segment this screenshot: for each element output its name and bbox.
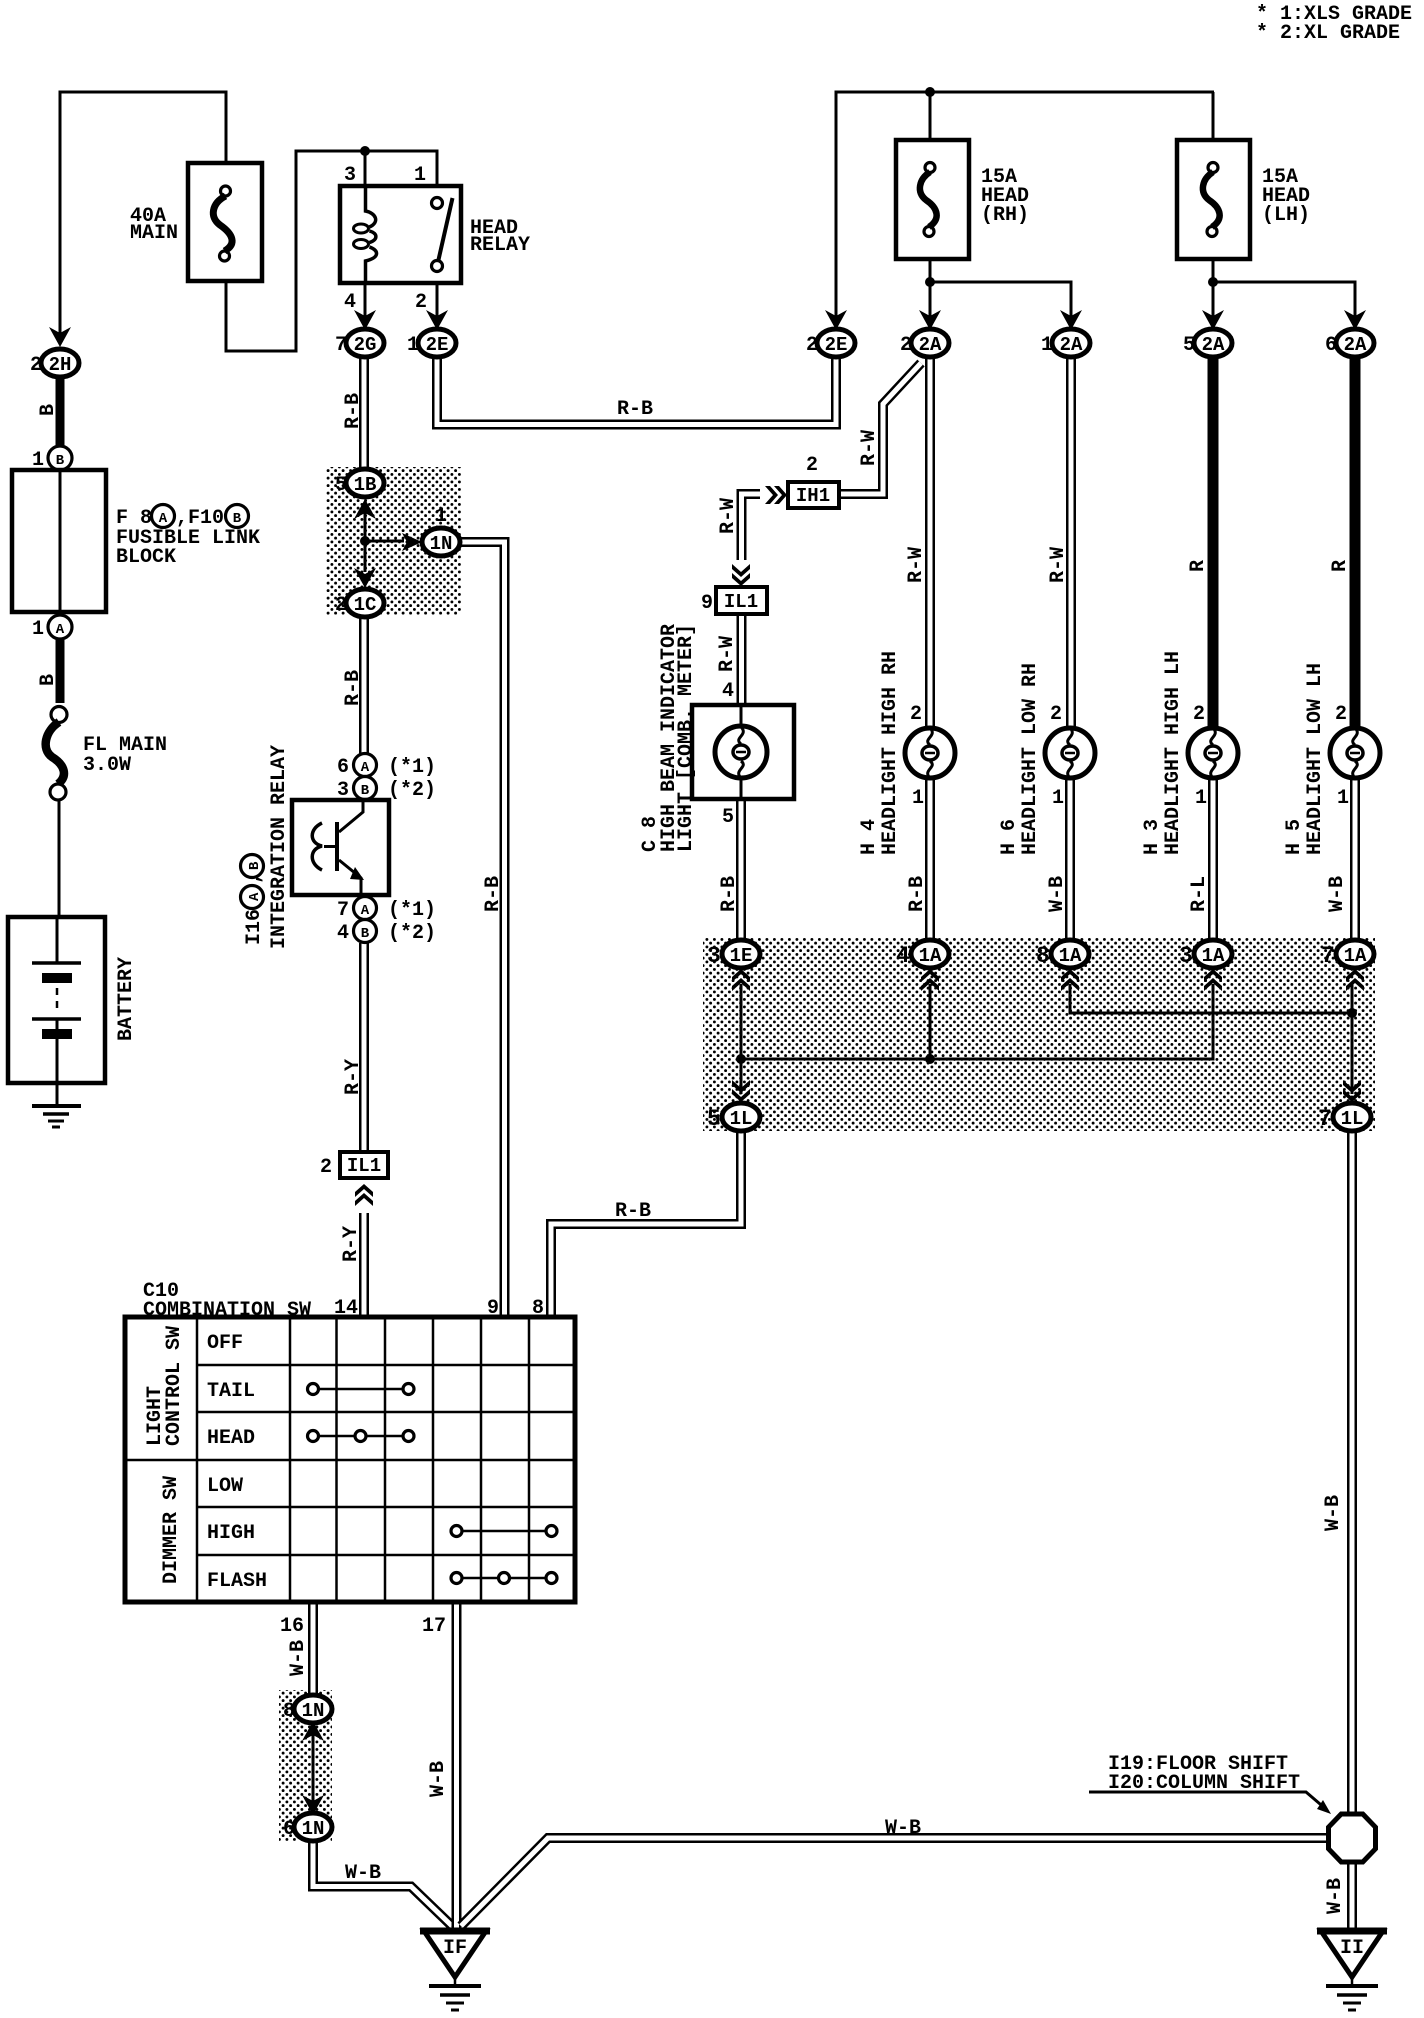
svg-text:3: 3: [707, 943, 721, 969]
svg-text:4: 4: [722, 680, 734, 703]
svg-text:4: 4: [344, 291, 356, 314]
svg-text:IF: IF: [443, 1937, 467, 1960]
wire R 6(2A) to headlight low LH: [1350, 357, 1361, 733]
svg-text:HEADLIGHT LOW LH: HEADLIGHT LOW LH: [1304, 663, 1327, 855]
svg-text:R-B: R-B: [906, 876, 929, 912]
svg-text:BLOCK: BLOCK: [116, 546, 176, 569]
connector 2(1C): [335, 589, 384, 617]
svg-text:R-Y: R-Y: [340, 1226, 363, 1262]
pin 4 B (*2): [337, 920, 436, 946]
svg-text:1: 1: [1052, 787, 1064, 810]
svg-text:LOW: LOW: [207, 1475, 243, 1498]
svg-text:(*2): (*2): [388, 922, 436, 945]
pin B circle: [32, 446, 72, 472]
svg-text:2H: 2H: [49, 354, 72, 376]
svg-text:(*2): (*2): [388, 779, 436, 802]
wire R-W 2(2A) to headlight high RH: [925, 357, 935, 731]
svg-text:2A: 2A: [1060, 334, 1083, 356]
svg-text:2: 2: [1193, 703, 1205, 726]
svg-text:HIGH: HIGH: [207, 1522, 255, 1545]
svg-text:II: II: [1340, 1937, 1364, 1960]
svg-text:B: B: [361, 783, 370, 799]
connector 2(2A): [900, 329, 949, 357]
svg-text:R-B: R-B: [482, 876, 505, 912]
svg-text:5: 5: [722, 806, 734, 829]
svg-text:HEADLIGHT LOW RH: HEADLIGHT LOW RH: [1019, 663, 1042, 855]
ground II: [1317, 1931, 1387, 2010]
node junction 1E bus: [736, 1054, 746, 1064]
lamp headlight high LH H3: [1188, 703, 1238, 810]
svg-text:I16: I16: [243, 909, 266, 945]
wire R-B 1C to integration relay pin A: [359, 616, 369, 756]
wire 1B to 1C link: [364, 513, 367, 572]
connector 3(1A): [1179, 940, 1232, 969]
svg-text:(RH): (RH): [981, 204, 1029, 227]
wire W-B headlight low LH to 7(1A): [1350, 777, 1360, 942]
svg-text:H 5: H 5: [1283, 819, 1306, 855]
svg-text:4: 4: [337, 922, 349, 945]
svg-text:5: 5: [1183, 334, 1195, 357]
svg-text:IL1: IL1: [347, 1155, 381, 1177]
svg-text:1B: 1B: [354, 474, 377, 496]
arrow into 6(1N): [302, 1795, 324, 1815]
svg-text:W-B: W-B: [1324, 1878, 1347, 1914]
svg-text:HEADLIGHT HIGH LH: HEADLIGHT HIGH LH: [1162, 651, 1185, 855]
arrow into 1B: [354, 499, 376, 519]
label lamp H4: [858, 651, 902, 855]
wire battery feed to 2H and 40A MAIN: [60, 92, 226, 341]
svg-text:1N: 1N: [302, 1818, 325, 1840]
svg-text:W-B: W-B: [345, 1862, 381, 1885]
svg-text:5: 5: [335, 474, 347, 497]
arrow into 1N: [402, 533, 422, 551]
svg-text:H 3: H 3: [1141, 819, 1164, 855]
svg-text:W-B: W-B: [287, 1640, 310, 1676]
svg-text:INTEGRATION RELAY: INTEGRATION RELAY: [268, 745, 291, 949]
svg-text:H 4: H 4: [858, 819, 881, 855]
connector IH1 pin 2: [788, 454, 839, 508]
svg-text:1: 1: [1195, 787, 1207, 810]
integration relay I16: [241, 745, 390, 949]
fusible link block F8/F10: [12, 470, 260, 612]
svg-text:(LH): (LH): [1262, 204, 1310, 227]
svg-text:HEADLIGHT HIGH RH: HEADLIGHT HIGH RH: [879, 651, 902, 855]
svg-text:2: 2: [1335, 703, 1347, 726]
note grade legend: [1256, 3, 1412, 45]
connector 2H: [30, 349, 79, 377]
svg-text:1: 1: [407, 334, 419, 357]
svg-text:TAIL: TAIL: [207, 1380, 255, 1403]
wire R-W IL1 to high beam indicator: [737, 614, 747, 707]
chevron arrow into IH1: [765, 486, 787, 504]
svg-text:1: 1: [435, 505, 447, 528]
node junction at relay feed: [360, 146, 370, 156]
svg-text:2E: 2E: [426, 334, 449, 356]
wire ground link 3(1E) to 5(1L): [740, 984, 743, 1094]
shaded harness region around 1B/1N/1C connectors: [326, 467, 461, 615]
svg-text:1L: 1L: [1341, 1108, 1364, 1130]
node junction 7(1A) bus: [1347, 1008, 1357, 1018]
svg-text:5: 5: [707, 1106, 721, 1132]
svg-text:R-B: R-B: [615, 1200, 651, 1223]
arrow into 1C: [354, 568, 376, 588]
svg-text:(*1): (*1): [388, 756, 436, 779]
connector 5(2A): [1183, 329, 1232, 357]
svg-text:1E: 1E: [730, 945, 753, 967]
svg-text:A: A: [247, 892, 263, 901]
svg-text:R-W: R-W: [905, 547, 928, 583]
chevron arrow into IL1 pin 2: [355, 1184, 373, 1206]
wire B thick 2H to fusible link: [56, 376, 65, 447]
svg-text:2E: 2E: [825, 334, 848, 356]
svg-text:FLASH: FLASH: [207, 1570, 267, 1593]
wire R-W IH1 to IL1 indicator feed: [742, 494, 761, 560]
lamp high beam indicator C8: [692, 680, 794, 829]
svg-text:R-W: R-W: [717, 498, 740, 534]
svg-text:R-W: R-W: [858, 430, 881, 466]
wire R-B high beam indicator to 3(1E): [736, 797, 746, 942]
svg-text:1A: 1A: [1344, 945, 1367, 967]
wire R-B 2G to 1B: [359, 357, 369, 470]
svg-text:2: 2: [335, 594, 347, 617]
svg-text:4: 4: [896, 943, 910, 969]
connector 2(2E): [806, 329, 855, 357]
svg-text:17: 17: [422, 1615, 446, 1638]
arrow into 2(2E): [825, 310, 847, 330]
wire R-B 1(2E) to 2(2E): [437, 357, 836, 425]
wire W-B combination switch pin 17 to ground IF: [452, 1602, 462, 1928]
connector 1(2E): [407, 329, 456, 357]
svg-text:8: 8: [283, 1700, 295, 1723]
svg-text:W-B: W-B: [1326, 876, 1349, 912]
chevron arrow into 8(1A): [1061, 969, 1079, 991]
wire W-B 7(1L) to shift connector: [1347, 1130, 1357, 1816]
svg-text:1A: 1A: [919, 945, 942, 967]
svg-text:COMBINATION SW: COMBINATION SW: [143, 1299, 311, 1322]
svg-text:B: B: [37, 674, 60, 686]
svg-text:A: A: [56, 622, 65, 638]
wire R-Y IL1 to combination switch pin 14: [359, 1213, 369, 1317]
svg-text:16: 16: [280, 1615, 304, 1638]
svg-text:7: 7: [1321, 943, 1335, 969]
svg-text:8: 8: [1036, 943, 1050, 969]
wire ground bus lower: [741, 984, 1213, 1059]
node junction 4(1A) bus: [925, 1054, 935, 1064]
connector 2G pin 7: [335, 329, 384, 357]
chevron arrow into IL1 pin 9: [732, 564, 750, 586]
connector 6(2A): [1325, 329, 1374, 357]
combination switch C10: [125, 1280, 575, 1638]
svg-text:DIMMER SW: DIMMER SW: [160, 1476, 183, 1584]
arrow into 1(2A): [1060, 310, 1082, 330]
svg-text:2: 2: [806, 334, 818, 357]
svg-text:IL1: IL1: [724, 591, 758, 613]
svg-text:2A: 2A: [919, 334, 942, 356]
svg-text:* 2:XL GRADE: * 2:XL GRADE: [1256, 22, 1400, 45]
pin 3 B (*2): [337, 777, 436, 803]
svg-text:RELAY: RELAY: [470, 234, 530, 257]
svg-text:W-B: W-B: [885, 1817, 921, 1840]
svg-text:MAIN: MAIN: [130, 222, 178, 245]
connector 6(1N): [283, 1813, 332, 1841]
svg-text:2: 2: [900, 334, 912, 357]
contacts TAIL row: [308, 1384, 415, 1395]
svg-text:3: 3: [344, 164, 356, 187]
contacts FLASH row: [451, 1573, 557, 1584]
fuse FL MAIN 3.0W: [46, 707, 167, 801]
label lamp H5: [1283, 663, 1327, 855]
svg-text:6: 6: [1325, 334, 1337, 357]
svg-text:2: 2: [806, 454, 818, 477]
wire R-Y integration relay to IL1: [359, 943, 369, 1152]
lamp headlight low LH H5: [1330, 703, 1380, 810]
node junction at 1B/1N branch: [360, 536, 370, 546]
svg-text:IH1: IH1: [796, 485, 830, 507]
svg-text:B: B: [56, 453, 65, 469]
svg-text:1N: 1N: [302, 1700, 325, 1722]
note I19 floor shift / I20 column shift: [1089, 1753, 1331, 1814]
wire branch to 1N: [365, 540, 404, 543]
svg-text:7: 7: [337, 899, 349, 922]
wire relay pin 2 to connector 2E: [436, 283, 439, 330]
arrow into 5(2A): [1202, 310, 1224, 330]
node junction below LH fuse: [1208, 277, 1218, 287]
svg-text:H 6: H 6: [998, 819, 1021, 855]
svg-text:R-B: R-B: [617, 398, 653, 421]
svg-text:A: A: [361, 903, 370, 919]
svg-text:B: B: [37, 404, 60, 416]
svg-text:7: 7: [1318, 1106, 1332, 1132]
svg-text:R-Y: R-Y: [342, 1059, 365, 1095]
svg-text:B: B: [233, 511, 242, 527]
svg-text:CONTROL SW: CONTROL SW: [163, 1326, 186, 1446]
wire W-B headlight low RH to 8(1A): [1065, 777, 1075, 942]
svg-text:OFF: OFF: [207, 1332, 243, 1355]
connector 3(1E): [707, 940, 760, 969]
connector 7(1A): [1321, 940, 1374, 969]
svg-text:R-W: R-W: [716, 636, 739, 672]
ground IF: [420, 1931, 490, 2010]
fuse 15A HEAD (LH): [1177, 140, 1310, 259]
wire W-B 6(1N) to ground IF: [313, 1840, 452, 1926]
svg-text:2: 2: [415, 291, 427, 314]
wire FL MAIN to battery: [58, 800, 61, 917]
arrow into 2(2A): [919, 310, 941, 330]
pin 6 A (*1): [337, 754, 436, 780]
shaded harness band across headlight ground connectors: [703, 938, 1375, 1131]
svg-text:2: 2: [910, 703, 922, 726]
svg-text:(*1): (*1): [388, 899, 436, 922]
relay HEAD RELAY: [340, 164, 530, 314]
wire R-W 1(2A) to headlight low RH: [1066, 357, 1076, 731]
svg-text:3: 3: [1179, 943, 1193, 969]
svg-text:BATTERY: BATTERY: [115, 957, 138, 1041]
svg-text:1C: 1C: [354, 594, 377, 616]
chevron arrow into 3(1A): [1204, 969, 1222, 991]
ground battery: [32, 1106, 81, 1127]
svg-text:R: R: [1187, 560, 1210, 572]
chevron arrow into 4(1A): [921, 969, 939, 991]
battery: [8, 917, 138, 1106]
connector 8(1A): [1036, 940, 1089, 969]
svg-text:R-B: R-B: [718, 876, 741, 912]
wire headlight fuse bus: [836, 92, 1214, 330]
svg-text:1: 1: [32, 618, 44, 641]
svg-text:1: 1: [1041, 334, 1053, 357]
wire 7(1A) to 7(1L): [1351, 984, 1354, 1094]
svg-text:1: 1: [1337, 787, 1349, 810]
node junction at RH fuse feed: [925, 87, 935, 97]
chevron arrow into 3(1E): [732, 969, 750, 991]
pin 7 A (*1): [337, 897, 436, 923]
svg-text:1A: 1A: [1202, 945, 1225, 967]
svg-text:A: A: [159, 511, 168, 527]
chevron arrow into 5(1L): [732, 1080, 750, 1102]
wire R-B 5(1L) to combination switch pin 8: [551, 1130, 741, 1317]
wire 15A LH fuse to 2A connectors: [1213, 259, 1355, 330]
connector 8(1N): [283, 1695, 332, 1723]
wire R-L headlight high LH to 3(1A): [1208, 777, 1218, 942]
svg-text:R-B: R-B: [342, 393, 365, 429]
svg-text:1: 1: [912, 787, 924, 810]
svg-text:7: 7: [335, 334, 347, 357]
chevron arrow into 7(1L): [1343, 1080, 1361, 1102]
label lamp H6: [998, 663, 1042, 855]
wire relay pin 4 to connector 2G: [364, 283, 367, 330]
wire R-B 1N to combination switch pin 9: [460, 542, 505, 1317]
chevron arrow into 7(1A): [1346, 969, 1364, 991]
wire ground bus upper: [1070, 984, 1352, 1013]
contacts HEAD row: [308, 1431, 415, 1442]
shaded harness region around 8(1N)/6(1N) connectors: [279, 1690, 332, 1841]
node junction below RH fuse: [925, 277, 935, 287]
wire R-W branch to IH1: [841, 363, 921, 494]
svg-text:2G: 2G: [354, 334, 377, 356]
svg-text:1L: 1L: [730, 1108, 753, 1130]
svg-text:6: 6: [337, 756, 349, 779]
connector 5(1L): [707, 1103, 760, 1132]
contacts HIGH row: [451, 1526, 557, 1537]
svg-text:B: B: [247, 861, 263, 870]
svg-text:A: A: [361, 760, 370, 776]
arrow into 2G: [354, 310, 376, 330]
connector IL1 pin 9: [701, 587, 767, 615]
svg-text:W-B: W-B: [427, 1761, 450, 1797]
svg-text:R-W: R-W: [1047, 547, 1070, 583]
lamp headlight low RH H6: [1045, 703, 1095, 810]
arrow into 8(1N): [302, 1721, 324, 1741]
wire B thick fusible link to FL MAIN: [56, 639, 65, 703]
connector 7(1L): [1318, 1103, 1371, 1132]
connector IL1 pin 2: [320, 1152, 388, 1179]
svg-text:1: 1: [414, 164, 426, 187]
label lamp H3: [1141, 651, 1185, 855]
connector 1(1N): [422, 505, 460, 556]
arrow into 1(2E): [426, 310, 448, 330]
label lamp C8 high beam indicator: [639, 624, 698, 852]
svg-text:2A: 2A: [1202, 334, 1225, 356]
connector 1(2A): [1041, 329, 1090, 357]
connector 5(1B): [335, 469, 384, 497]
svg-text:2A: 2A: [1344, 334, 1367, 356]
svg-text:HEAD: HEAD: [207, 1427, 255, 1450]
svg-text:2: 2: [1050, 703, 1062, 726]
wire R-B headlight high RH to 4(1A): [925, 777, 935, 942]
svg-text:R-L: R-L: [1188, 876, 1211, 912]
fuse 15A HEAD (RH): [896, 140, 1029, 259]
svg-text:B: B: [361, 926, 370, 942]
wire R 5(2A) to headlight high LH: [1208, 357, 1219, 733]
wire 40A MAIN to head relay pins 3 and 1: [226, 151, 437, 351]
wire W-B combination switch pin 16 to 8(1N): [308, 1602, 318, 1697]
svg-text:3.0W: 3.0W: [83, 754, 131, 777]
svg-text:2: 2: [320, 1156, 332, 1179]
wire link 8(1N) to 6(1N): [312, 1726, 315, 1810]
svg-text:LIGHT [COMB. METER]: LIGHT [COMB. METER]: [675, 624, 698, 852]
svg-text:1N: 1N: [430, 533, 453, 555]
wire 4(1A) drop to ground bus: [929, 984, 932, 1059]
connector shift I19/I20 octagon: [1329, 1814, 1376, 1862]
svg-text:14: 14: [334, 1297, 358, 1320]
svg-text:1A: 1A: [1059, 945, 1082, 967]
lamp headlight high RH H4: [905, 703, 955, 810]
pin A circle: [32, 615, 72, 641]
wire W-B shift connector to ground II: [1347, 1861, 1357, 1931]
wire 15A RH fuse to 2A connectors: [930, 259, 1071, 330]
svg-text:9: 9: [487, 1297, 499, 1320]
fuse 40A MAIN: [130, 163, 262, 281]
svg-text:W-B: W-B: [1046, 876, 1069, 912]
arrow into 2H: [49, 327, 71, 347]
svg-text:2: 2: [30, 354, 42, 377]
svg-text:R-B: R-B: [342, 670, 365, 706]
connector 4(1A): [896, 940, 949, 969]
svg-text:9: 9: [701, 592, 713, 615]
wire W-B shift connector to ground IF: [461, 1838, 1326, 1926]
svg-text:6: 6: [283, 1818, 295, 1841]
svg-text:8: 8: [532, 1297, 544, 1320]
arrow into 6(2A): [1344, 310, 1366, 330]
svg-text:W-B: W-B: [1322, 1495, 1345, 1531]
svg-text:R: R: [1329, 560, 1352, 572]
